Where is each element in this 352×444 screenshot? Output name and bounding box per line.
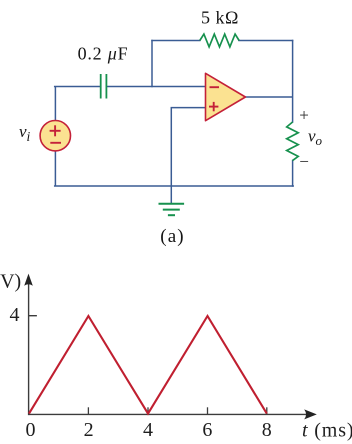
wire: feedback top left segment <box>152 40 200 42</box>
svg-text:+: + <box>299 105 309 124</box>
svg-text:V): V) <box>0 271 21 293</box>
wire: left rail (source branch) <box>54 87 56 187</box>
svg-text:2: 2 <box>84 419 94 441</box>
resistor RL (output load, vo) <box>287 122 299 161</box>
x-axis <box>29 413 309 415</box>
wire: capacitor to op-amp inverting input <box>107 86 206 88</box>
tick y=4 <box>29 315 37 317</box>
wire: noninverting input and down to ground node <box>171 108 205 186</box>
capacitor C1 0.2 uF <box>101 74 107 99</box>
svg-text:4: 4 <box>143 419 153 441</box>
tick t=6 <box>207 407 209 414</box>
wire: bottom rail <box>55 185 294 187</box>
wire: right rail lower (below load resistor) <box>292 161 294 187</box>
wire: inverting input from source to capacitor <box>55 86 100 88</box>
wire: op-amp output <box>244 96 293 98</box>
op-amp U1 <box>206 73 246 120</box>
y-axis arrowhead <box>24 274 33 286</box>
svg-text:t (ms): t (ms) <box>302 419 352 441</box>
svg-text:vi: vi <box>19 122 31 144</box>
ground stem <box>170 186 172 203</box>
op-amp inverting mark <box>210 86 220 88</box>
tick t=4 <box>147 407 149 414</box>
source minus mark <box>50 142 61 144</box>
waveform vi(t) triangle wave <box>29 316 267 414</box>
op-amp noninverting mark <box>209 102 218 111</box>
svg-text:−: − <box>299 152 309 171</box>
tick t=2 <box>87 407 89 414</box>
resistor R1 5 kOhm (feedback) <box>200 34 239 47</box>
ground symbol <box>159 204 185 216</box>
svg-text:5 kΩ: 5 kΩ <box>201 8 239 28</box>
svg-text:0.2 μF: 0.2 μF <box>78 44 129 64</box>
svg-text:8: 8 <box>262 419 272 441</box>
y-axis <box>28 281 30 415</box>
wire: feedback top right segment <box>239 40 293 42</box>
tick t=8 <box>266 407 268 414</box>
source Vi (independent voltage source) <box>40 121 70 151</box>
svg-text:4: 4 <box>10 304 20 326</box>
source plus mark <box>50 125 61 136</box>
svg-text:(a): (a) <box>160 226 184 247</box>
x-axis arrowhead <box>304 409 317 419</box>
wire: right rail upper (feedback corner down to output node) <box>292 41 294 123</box>
svg-text:vo: vo <box>308 127 323 149</box>
svg-text:6: 6 <box>202 419 212 441</box>
svg-text:0: 0 <box>26 419 36 441</box>
wire: feedback tap vertical <box>151 41 153 87</box>
